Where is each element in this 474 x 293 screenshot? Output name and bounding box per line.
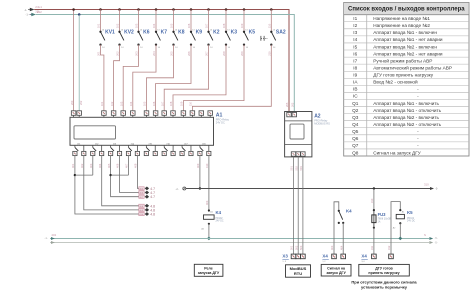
svg-text:310: 310 xyxy=(370,198,374,203)
svg-text:24L1: 24L1 xyxy=(35,5,42,9)
svg-text:206: 206 xyxy=(187,51,191,56)
svg-text:110: 110 xyxy=(268,23,272,28)
svg-text:106: 106 xyxy=(187,23,191,28)
svg-text:104: 104 xyxy=(129,101,133,106)
wire Q8L down to +24 control bus xyxy=(199,156,201,189)
svg-text:-1-: -1- xyxy=(24,8,27,12)
svg-text:Q5: Q5 xyxy=(352,129,359,134)
svg-text:K9: K9 xyxy=(196,30,203,36)
contact K6 (NO contact) xyxy=(137,30,143,49)
node L+ 24V source arrow (sheet ref) xyxy=(24,5,42,13)
svg-text:202: 202 xyxy=(291,102,295,107)
svg-text:KV1: KV1 xyxy=(105,30,115,36)
svg-text:I6: I6 xyxy=(353,51,357,56)
svg-text:KV2: KV2 xyxy=(124,30,134,36)
A1 output contact Q4 xyxy=(128,143,137,151)
wire fuse FU3 to terminal X4:1 xyxy=(373,228,375,254)
svg-text:PR102: PR102 xyxy=(407,218,415,220)
A1 terminal I1 xyxy=(102,111,107,118)
svg-text:Аппарат ввода №2 - включить: Аппарат ввода №2 - включить xyxy=(373,115,439,120)
wire Q3L to stack row 3 xyxy=(111,156,139,197)
svg-text:312: 312 xyxy=(387,245,391,250)
svg-text:Сигнал на запуск ДГУ: Сигнал на запуск ДГУ xyxy=(373,150,420,155)
contact KV1 (NO contact) xyxy=(99,30,105,49)
svg-text:K4: K4 xyxy=(216,210,222,215)
A1 terminal I6 xyxy=(153,111,158,118)
wire control bus to fuse FU3 xyxy=(373,189,375,211)
I/O table row I9 xyxy=(353,73,433,78)
svg-text:Список входов / выходов контро: Список входов / выходов контроллера xyxy=(348,7,465,13)
svg-text:102: 102 xyxy=(116,23,120,28)
A1 terminal Q7 right pin xyxy=(189,151,193,155)
connector arrow to sheet 4.7 (row 2) xyxy=(139,191,155,195)
junction dot on red bus at K6 branch xyxy=(137,8,140,11)
svg-text:ДГУ готов принять нагрузку: ДГУ готов принять нагрузку xyxy=(373,73,433,78)
svg-text:X4: X4 xyxy=(322,253,328,258)
svg-text:PR102: PR102 xyxy=(216,218,224,220)
I/O table row line 4 xyxy=(344,42,469,44)
svg-text:404: 404 xyxy=(98,163,102,168)
svg-text:207: 207 xyxy=(205,51,209,56)
svg-text:запуск ДГУ: запуск ДГУ xyxy=(326,271,346,275)
svg-text:110: 110 xyxy=(189,101,193,106)
I/O table row I5 xyxy=(353,44,437,49)
svg-text:310: 310 xyxy=(424,183,429,187)
contact K7 (NO contact) xyxy=(155,30,161,49)
svg-text:Q2: Q2 xyxy=(352,108,359,113)
svg-text:IC: IC xyxy=(353,94,358,99)
svg-text:-5-: -5- xyxy=(435,241,438,244)
svg-text:1A: 1A xyxy=(378,220,381,223)
terminal X3:1 xyxy=(291,254,296,259)
svg-text:205: 205 xyxy=(170,51,174,56)
I/O table row IA xyxy=(353,79,418,85)
I/O table row IC xyxy=(353,94,419,99)
svg-text:I8: I8 xyxy=(353,65,357,70)
wire red drop to contact K5 xyxy=(243,10,245,32)
contact K5 (NO contact) xyxy=(243,30,249,49)
wire red drop to contact K9 xyxy=(190,10,192,32)
terminal X4:3 DGU ready xyxy=(372,254,377,259)
wire A2 to X3 pin 1 xyxy=(293,156,295,254)
A2 bottom terminal 3 xyxy=(301,152,305,156)
svg-text:-2-: -2- xyxy=(176,188,179,191)
I/O table row Q3 xyxy=(352,115,439,120)
svg-text:202: 202 xyxy=(52,233,57,237)
label K5 with type xyxy=(407,210,415,222)
I/O table row line 12 xyxy=(344,98,469,100)
I/O table row line 15 xyxy=(344,120,469,122)
wire red drop to contact K2 xyxy=(208,10,210,32)
svg-text:Напряжение на вводе №2: Напряжение на вводе №2 xyxy=(373,23,430,28)
svg-text:101: 101 xyxy=(97,23,101,28)
I/O table row Q2 xyxy=(352,108,442,113)
A1 terminal Q6 left pin xyxy=(162,151,166,155)
svg-text:Аппарат ввода №2 - нет аварии: Аппарат ввода №2 - нет аварии xyxy=(373,51,443,56)
connector circle feed of control bus xyxy=(176,187,186,191)
wire Q1R to stack row 5 xyxy=(84,156,139,210)
connector arrow to sheet 4.8 (row 5) xyxy=(139,208,155,212)
wire +24 control bus xyxy=(186,188,430,190)
I/O table row line 13 xyxy=(344,106,469,108)
svg-text:I7: I7 xyxy=(353,58,357,63)
sheet arrow right end of control bus xyxy=(424,183,438,191)
A1 output contact Q6 xyxy=(164,143,173,151)
wire red drop to contact SA2 xyxy=(270,10,272,32)
svg-text:A2: A2 xyxy=(314,113,321,119)
svg-text:SA2: SA2 xyxy=(276,30,286,36)
wire N bus (teal) xyxy=(50,238,429,240)
label K4 with type xyxy=(216,210,224,222)
I/O table row Q1 xyxy=(352,101,439,106)
A1 terminal I4 xyxy=(131,111,136,118)
contact K3 (NO contact) xyxy=(225,30,231,49)
I/O table header band xyxy=(344,3,469,14)
svg-text:108: 108 xyxy=(222,23,226,28)
svg-text:K7: K7 xyxy=(161,30,168,36)
svg-text:202: 202 xyxy=(116,51,120,56)
svg-text:N: N xyxy=(424,233,426,237)
I/O table row line 14 xyxy=(344,113,469,115)
svg-text:K3: K3 xyxy=(231,30,238,36)
label A1 with type xyxy=(216,112,230,124)
manual operator of selector switch SA2 xyxy=(261,36,268,41)
svg-text:Автоматический режим работы АВ: Автоматический режим работы АВР xyxy=(373,64,452,70)
junction dot on red bus at SA2 branch xyxy=(270,8,273,11)
I/O table row line 3 xyxy=(344,35,469,37)
svg-text:MODBUS RS: MODBUS RS xyxy=(314,122,330,126)
svg-text:Аппарат ввода №1 - отключить: Аппарат ввода №1 - отключить xyxy=(373,108,441,113)
svg-text:Ручной режим работы АВР: Ручной режим работы АВР xyxy=(373,57,432,63)
terminal X4:2 start signal xyxy=(341,254,346,259)
I/O table row line 19 xyxy=(344,148,469,150)
svg-text:Q6: Q6 xyxy=(352,136,359,141)
node M 24V return source arrow (sheet ref) xyxy=(26,10,43,17)
svg-text:102: 102 xyxy=(110,101,114,106)
I/O table row line 18 xyxy=(344,141,469,143)
svg-text:406: 406 xyxy=(116,163,120,168)
junction dot on red bus at KV1 branch xyxy=(99,8,102,11)
I/O table row Q8 xyxy=(352,150,421,155)
A1 terminal Q8 left pin xyxy=(198,151,202,155)
svg-text:208: 208 xyxy=(222,51,226,56)
A1 terminal Q5 right pin xyxy=(153,151,157,155)
svg-text:запуска ДГУ: запуска ДГУ xyxy=(198,271,220,275)
wire PE bus (grey) xyxy=(50,242,429,244)
contact K9 (NO contact) xyxy=(190,30,196,49)
svg-text:108: 108 xyxy=(169,101,173,106)
annotation box ModBUS RTU xyxy=(286,265,311,277)
connector arrow to sheet 4.8 (row 4) xyxy=(139,204,155,208)
I/O table row line 7 xyxy=(344,63,469,65)
label X3 xyxy=(282,253,288,263)
svg-text:Q3: Q3 xyxy=(352,115,359,120)
junction dot Q3L tie xyxy=(109,174,111,176)
svg-text:4.7: 4.7 xyxy=(150,195,155,199)
I/O table row I4 xyxy=(353,37,443,42)
svg-text:408: 408 xyxy=(134,163,138,168)
annotation box DGU ready to accept load xyxy=(359,264,410,276)
A1 terminal Q7 left pin xyxy=(180,151,184,155)
I/O table row line 10 xyxy=(344,84,469,86)
svg-text:501: 501 xyxy=(290,166,294,171)
svg-text:103: 103 xyxy=(135,23,139,28)
junction dot on red bus at KV2 branch xyxy=(118,8,121,11)
contact K2 (NO contact) xyxy=(207,30,213,49)
wire A1 power M drop (teal) xyxy=(78,15,80,111)
svg-text:311: 311 xyxy=(370,245,374,250)
I/O table row line 2 xyxy=(344,28,469,30)
wire A2 to X3 pin 3 xyxy=(302,156,304,254)
I/O table row line 9 xyxy=(344,77,469,79)
wire tie Q3L-Q4L xyxy=(111,156,129,176)
A1 terminal Q1 right pin xyxy=(82,151,86,155)
I/O table row I3 xyxy=(353,30,437,35)
terminal X3:2 xyxy=(296,254,301,259)
wire X4 start-signal left leg xyxy=(334,202,339,254)
svg-text:4.8: 4.8 xyxy=(150,213,155,217)
svg-text:24V DC: 24V DC xyxy=(216,221,224,223)
svg-text:-5-: -5- xyxy=(435,237,438,240)
A1 output contact Q1 xyxy=(75,143,84,151)
svg-text:104: 104 xyxy=(152,23,156,28)
A2 terminal L+ xyxy=(287,112,291,116)
wire red drop to contact K7 xyxy=(155,10,157,32)
wire from contact K9 to A1 input terminal xyxy=(156,45,191,111)
junction dot on red bus at K3 branch xyxy=(225,8,228,11)
svg-text:103: 103 xyxy=(119,101,123,106)
svg-text:202: 202 xyxy=(37,10,42,14)
A1 terminal I5 xyxy=(144,111,149,118)
svg-text:Аппарат ввода №2 - отключить: Аппарат ввода №2 - отключить xyxy=(373,122,441,127)
I/O table row line 11 xyxy=(344,91,469,93)
junction dot Q1L tie xyxy=(74,174,76,176)
note about missing signal jumper xyxy=(351,279,417,289)
svg-text:200: 200 xyxy=(70,100,74,105)
wire red drop to contact K8 xyxy=(173,10,175,32)
svg-text:101: 101 xyxy=(100,101,104,106)
svg-text:-1-: -1- xyxy=(45,237,48,240)
contact K8 (NO contact) xyxy=(172,30,178,49)
svg-text:A1: A1 xyxy=(216,112,223,118)
net connector diamond K5 to N bus xyxy=(398,237,402,241)
svg-text:-1-: -1- xyxy=(26,13,29,17)
svg-text:K5: K5 xyxy=(249,30,256,36)
wire from contact K6 to A1 input terminal xyxy=(123,45,138,111)
connector arrow to sheet 4.7 (row 1) xyxy=(139,187,155,191)
junction dot on red bus at K7 branch xyxy=(155,8,158,11)
svg-text:407: 407 xyxy=(125,163,129,168)
A1 terminal Q2 left pin xyxy=(91,151,95,155)
svg-text:Ввод №2 - основной: Ввод №2 - основной xyxy=(373,79,418,85)
svg-text:ПКФ 10x38: ПКФ 10x38 xyxy=(378,216,392,220)
svg-text:Q7: Q7 xyxy=(352,143,359,148)
A1 output contact Q7 xyxy=(182,143,191,151)
svg-text:203: 203 xyxy=(135,51,139,56)
svg-text:X4: X4 xyxy=(361,253,367,258)
wire red drop to contact KV2 xyxy=(119,10,121,32)
svg-text:I5: I5 xyxy=(353,44,357,49)
wire Q8R down to relay K4 coil xyxy=(208,156,210,211)
A1 terminal Q3 right pin xyxy=(117,151,121,155)
svg-text:403: 403 xyxy=(330,245,334,250)
wire +24V top bus (red) xyxy=(34,10,289,113)
svg-text:410: 410 xyxy=(205,163,209,168)
svg-text:FU3: FU3 xyxy=(378,212,387,217)
A1 terminal IB xyxy=(199,111,204,118)
relay coil K4 xyxy=(201,209,214,230)
A1 terminal I7 xyxy=(162,111,167,118)
svg-text:105: 105 xyxy=(143,101,147,106)
wire from contact K2 to A1 input terminal xyxy=(164,45,208,111)
svg-text:Напряжение на вводе №1: Напряжение на вводе №1 xyxy=(373,16,430,21)
contact SA2 (NO contact) xyxy=(270,30,276,49)
wire Q2R to stack row 4 xyxy=(102,156,139,206)
A1 output contact Q5 xyxy=(146,143,155,151)
svg-text:K4: K4 xyxy=(346,209,352,214)
svg-text:Q4: Q4 xyxy=(352,122,359,127)
wire A1 power L+ drop xyxy=(73,10,75,111)
wire X4 start-signal right leg xyxy=(342,223,344,254)
wire Q3R to stack row 2 xyxy=(120,156,139,193)
A1 terminal Q4 right pin xyxy=(135,151,139,155)
I/O table row line 1 xyxy=(344,21,469,23)
A1 terminal I8 xyxy=(171,111,176,118)
net connector diamond K4 to N bus xyxy=(207,237,211,241)
wire A2 to X3 pin 2 xyxy=(297,156,299,254)
svg-text:502: 502 xyxy=(294,166,298,171)
junction dot FU3 branch on control bus xyxy=(373,187,375,189)
svg-text:501: 501 xyxy=(290,245,294,250)
wire red drop to contact K6 xyxy=(138,10,140,32)
svg-text:404: 404 xyxy=(339,245,343,250)
junction dot on teal bus at A1 power branch xyxy=(78,13,81,16)
annotation box DGU start relay xyxy=(194,264,223,276)
svg-text:24V DC: 24V DC xyxy=(407,221,415,223)
svg-text:I2: I2 xyxy=(353,23,357,28)
svg-text:Аппарат ввода №1 - включен: Аппарат ввода №1 - включен xyxy=(373,30,437,35)
wire tie Q1L-Q2L xyxy=(75,156,93,176)
fuse FU3 xyxy=(372,209,376,229)
junction dot on red bus at K5 branch xyxy=(243,8,246,11)
svg-text:K2: K2 xyxy=(213,30,220,36)
svg-text:Q8: Q8 xyxy=(352,150,359,155)
A1 terminal Q4 left pin xyxy=(126,151,130,155)
wire red drop to contact KV1 xyxy=(100,10,102,32)
svg-text:Аппарат ввода №1 - нет аварии: Аппарат ввода №1 - нет аварии xyxy=(373,37,443,42)
svg-text:201: 201 xyxy=(97,51,101,56)
svg-text:Аппарат ввода №2 - включен: Аппарат ввода №2 - включен xyxy=(373,44,437,49)
I/O table frame xyxy=(344,3,469,157)
svg-text:I3: I3 xyxy=(353,30,357,35)
I/O table row Q7 xyxy=(352,143,419,148)
A1 terminal I9 xyxy=(181,111,186,118)
A1 terminal I3 xyxy=(121,111,126,118)
terminal X3:3 xyxy=(301,254,306,259)
svg-text:IB: IB xyxy=(353,87,357,92)
A1 output contact Q3 xyxy=(111,143,120,151)
junction dot on red bus at K8 branch xyxy=(172,8,175,11)
I/O table row line 16 xyxy=(344,127,469,129)
junction dot on red bus at K2 branch xyxy=(207,8,210,11)
wire from contact K3 to A1 input terminal xyxy=(173,45,226,111)
label FU3 with type xyxy=(378,212,392,223)
I/O table row line 6 xyxy=(344,56,469,58)
A1 terminal Q1 left pin xyxy=(73,151,77,155)
A2 terminal M xyxy=(292,112,296,116)
svg-text:502: 502 xyxy=(294,245,298,250)
svg-text:210: 210 xyxy=(268,51,272,56)
A2 bottom terminal 1 xyxy=(291,152,295,156)
A2 bottom terminal 2 xyxy=(296,152,300,156)
svg-text:ДГУ готов: ДГУ готов xyxy=(375,266,393,270)
svg-text:I1: I1 xyxy=(353,16,357,21)
I/O table column divider xyxy=(366,15,368,156)
A1 terminal M xyxy=(77,111,82,118)
wire Q1L to stack row 6 xyxy=(75,156,139,214)
svg-text:I4: I4 xyxy=(353,37,357,42)
A1 output contact Q2 xyxy=(93,143,102,151)
svg-text:109: 109 xyxy=(180,101,184,106)
svg-text:RTU: RTU xyxy=(294,271,302,276)
svg-text:Аппарат ввода №1 - включить: Аппарат ввода №1 - включить xyxy=(373,101,439,106)
I/O table row I6 xyxy=(353,51,443,56)
communication module A2 body xyxy=(285,112,312,157)
A2 display window xyxy=(290,124,304,139)
wire red drop to contact K3 xyxy=(225,10,227,32)
A1 output contact Q8 xyxy=(200,143,209,151)
wire K5 coil to N bus xyxy=(399,223,401,238)
label X4 (start signal) xyxy=(322,253,328,263)
source arrow of PE bus xyxy=(51,241,55,244)
label X4 (DGU ready) xyxy=(361,253,367,263)
svg-text:202: 202 xyxy=(79,100,83,105)
label A2 with type xyxy=(314,113,330,125)
I/O table row I8 xyxy=(353,64,452,70)
svg-text:K5: K5 xyxy=(407,210,413,215)
A1 display window xyxy=(74,126,116,139)
wire Q4R to stack row 1 xyxy=(137,156,138,189)
svg-text:105: 105 xyxy=(170,23,174,28)
terminal X4:4 DGU ready xyxy=(389,254,394,259)
svg-text:I9: I9 xyxy=(353,73,357,78)
contact K4 (NO) start signal xyxy=(338,210,345,224)
A1 terminal IA xyxy=(190,111,195,118)
relay coil K5 xyxy=(393,209,405,230)
contact KV2 (NO contact) xyxy=(118,30,124,49)
connector arrow to sheet 4.8 (row 6) xyxy=(139,212,155,216)
svg-text:109: 109 xyxy=(240,23,244,28)
wire from contact K5 to A1 input terminal xyxy=(183,45,244,111)
wire from contact K8 to A1 input terminal xyxy=(147,45,174,111)
I/O table row line 5 xyxy=(344,49,469,51)
wire from contact SA2 to A1 input terminal xyxy=(192,45,271,111)
sheet arrow right end of PE bus xyxy=(429,241,437,244)
A1 terminal L+ xyxy=(71,111,76,118)
I/O table row Q6 xyxy=(352,136,419,141)
svg-text:принять нагрузку: принять нагрузку xyxy=(368,271,399,275)
svg-text:204: 204 xyxy=(152,51,156,56)
wire from contact KV2 to A1 input terminal xyxy=(114,45,120,111)
svg-text:Q1: Q1 xyxy=(352,101,359,106)
svg-text:K8: K8 xyxy=(178,30,185,36)
svg-text:Сигнал на: Сигнал на xyxy=(327,266,346,270)
I/O table row I2 xyxy=(353,23,430,28)
annotation box signal to start DGU xyxy=(321,264,351,276)
A1 terminal Q8 right pin xyxy=(207,151,211,155)
svg-text:209: 209 xyxy=(240,51,244,56)
A1 terminal Q6 right pin xyxy=(171,151,175,155)
